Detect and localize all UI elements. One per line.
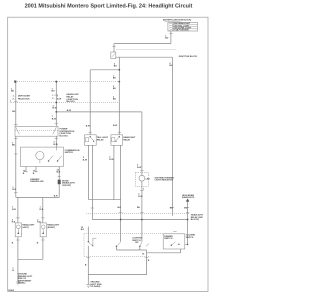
- svg-text:SWITCH: SWITCH: [164, 238, 173, 240]
- svg-text:B: B: [33, 173, 35, 175]
- svg-text:BU: BU: [169, 65, 173, 67]
- svg-text:B-R: B-R: [12, 189, 16, 191]
- svg-text:B-W: B-W: [86, 126, 90, 128]
- svg-text:2 -: 2 -: [13, 98, 16, 100]
- svg-text:2 -: 2 -: [52, 98, 55, 100]
- svg-text:SWITCH: SWITCH: [65, 152, 74, 154]
- svg-text:R-B: R-B: [12, 209, 16, 211]
- svg-text:B-W: B-W: [52, 119, 56, 121]
- svg-text:B: B: [12, 270, 14, 272]
- svg-text:B: B: [37, 242, 39, 244]
- svg-text:B: B: [85, 265, 87, 267]
- svg-text:BU: BU: [11, 91, 15, 93]
- svg-text:BATTERY (JUNCTION BLOCK): BATTERY (JUNCTION BLOCK): [163, 19, 191, 22]
- svg-text:PASSING SW: PASSING SW: [30, 180, 43, 183]
- svg-text:BU: BU: [170, 207, 174, 209]
- svg-text:PANEL): PANEL): [18, 282, 26, 285]
- svg-text:BU: BU: [113, 99, 117, 101]
- svg-text:BU: BU: [137, 207, 141, 209]
- svg-text:B: B: [12, 242, 14, 244]
- svg-text:B-W: B-W: [57, 98, 61, 100]
- svg-text:R-W: R-W: [109, 159, 113, 161]
- svg-text:LED: LED: [146, 178, 151, 180]
- svg-text:B-W: B-W: [113, 125, 117, 127]
- svg-text:RELAY BLK: RELAY BLK: [18, 97, 30, 100]
- svg-text:1: 1: [143, 189, 145, 191]
- svg-text:16: 16: [142, 254, 145, 256]
- svg-text:B-R: B-R: [81, 229, 85, 231]
- svg-text:BU: BU: [184, 207, 188, 209]
- svg-text:RELAY: RELAY: [97, 138, 104, 141]
- svg-text:(RIGHT): (RIGHT): [47, 227, 55, 229]
- svg-text:SWITCH: SWITCH: [186, 237, 194, 239]
- svg-text:B: B: [148, 260, 150, 262]
- svg-text:BU: BU: [118, 207, 122, 209]
- svg-text:BU: BU: [113, 88, 117, 90]
- svg-text:BLOCK): BLOCK): [191, 219, 199, 221]
- svg-text:JUNCTION BLOCK: JUNCTION BLOCK: [179, 56, 198, 58]
- svg-text:50259: 50259: [8, 290, 15, 292]
- svg-text:BU: BU: [12, 145, 16, 147]
- svg-text:BU: BU: [52, 91, 56, 93]
- svg-text:B-W: B-W: [53, 108, 57, 110]
- svg-text:2001 Mitsubishi Montero Sport: 2001 Mitsubishi Montero Sport Limited-Fi…: [25, 4, 193, 10]
- svg-text:RELAY: RELAY: [123, 138, 130, 141]
- svg-text:BU: BU: [12, 111, 16, 113]
- svg-text:BLOCK): BLOCK): [67, 101, 75, 103]
- svg-text:R-W: R-W: [137, 167, 141, 169]
- svg-text:(LEFT): (LEFT): [22, 227, 29, 229]
- svg-text:BU: BU: [114, 66, 118, 68]
- svg-text:BU: BU: [113, 78, 117, 80]
- svg-text:1 -: 1 -: [52, 95, 55, 97]
- svg-text:R-W: R-W: [138, 196, 142, 198]
- svg-text:BU: BU: [165, 38, 169, 40]
- svg-text:1 -: 1 -: [13, 96, 16, 98]
- svg-text:LIGHT INDICATOR: LIGHT INDICATOR: [155, 179, 174, 182]
- svg-text:B: B: [23, 173, 25, 175]
- svg-text:DEFOGGER: DEFOGGER: [18, 96, 30, 98]
- svg-text:OF DASH): OF DASH): [90, 285, 100, 288]
- svg-text:B-R: B-R: [57, 172, 61, 174]
- svg-text:BLOCK): BLOCK): [60, 136, 68, 138]
- svg-text:B-W: B-W: [67, 110, 71, 112]
- svg-text:B-W: B-W: [83, 159, 87, 161]
- svg-text:B-R: B-R: [54, 196, 58, 198]
- svg-text:(HEADLIGHT): (HEADLIGHT): [182, 196, 195, 199]
- svg-text:CIRCUIT): CIRCUIT): [62, 185, 71, 187]
- svg-text:R-B: R-B: [40, 209, 44, 211]
- svg-text:7.5A POSITION: 7.5A POSITION: [174, 29, 189, 32]
- svg-text:B-W: B-W: [54, 144, 58, 146]
- svg-text:1: 1: [57, 96, 59, 98]
- svg-text:OFF: OFF: [135, 242, 139, 244]
